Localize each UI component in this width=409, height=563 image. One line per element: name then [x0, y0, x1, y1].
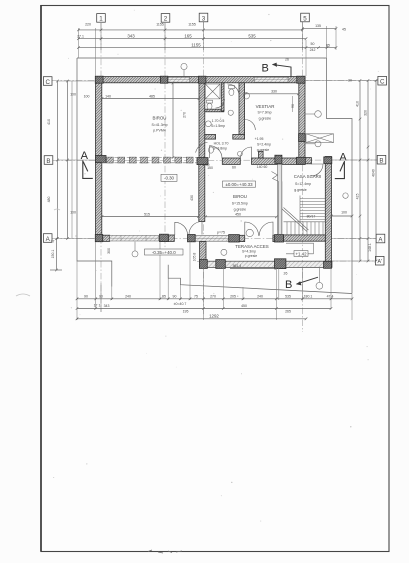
svg-text:±0.00=+40.33: ±0.00=+40.33	[225, 182, 253, 187]
svg-text:1.30: 1.30	[203, 163, 210, 167]
svg-text:BIROU: BIROU	[233, 194, 247, 199]
wall wc divider horizontal	[205, 109, 224, 112]
wall parapet A'	[203, 261, 332, 267]
tag circle above top wall	[181, 63, 187, 76]
bubble 2	[161, 14, 170, 23]
level box birou1	[161, 174, 177, 181]
svg-text:50: 50	[311, 42, 315, 46]
svg-text:80/17: 80/17	[307, 215, 316, 219]
svg-text:135: 135	[315, 24, 321, 28]
svg-text:2: 2	[164, 16, 168, 23]
column G5-B	[297, 157, 306, 164]
tag circle wc mid	[228, 110, 233, 115]
window row A birou2	[195, 236, 229, 242]
svg-text:330: 330	[271, 89, 277, 93]
grid axis A'	[197, 260, 375, 263]
svg-text:343: 343	[104, 304, 110, 308]
fixture wc2 sink	[205, 121, 211, 127]
wall row A seg4	[273, 235, 275, 241]
tag circle right wall	[343, 193, 348, 198]
tag circle wc	[243, 93, 249, 99]
wall row B right of axis5	[305, 158, 311, 164]
svg-text:S=7.9mp: S=7.9mp	[257, 111, 271, 115]
wall hol top horizontal left	[205, 135, 216, 140]
svg-text:343: 343	[127, 34, 135, 39]
bubble 5	[301, 13, 310, 22]
frame bottom smudges	[148, 550, 182, 553]
wall row A seg2	[168, 235, 174, 241]
svg-text:148.1: 148.1	[368, 243, 372, 252]
svg-text:150.1: 150.1	[51, 250, 55, 259]
svg-text:45: 45	[342, 27, 346, 31]
svg-text:77: 77	[51, 240, 55, 244]
top dim labels	[77, 23, 346, 62]
wall terasa left	[200, 242, 206, 262]
svg-text:g.gresie: g.gresie	[257, 148, 270, 152]
svg-text:47.4: 47.4	[327, 294, 334, 298]
bubble B right	[377, 155, 386, 164]
svg-text:105.8: 105.8	[193, 253, 197, 262]
left dim chain 2	[66, 80, 69, 240]
door wc2 arc	[245, 120, 256, 131]
svg-text:VESTIAR: VESTIAR	[256, 104, 275, 109]
grid axis 5	[302, 22, 304, 332]
svg-text:A': A'	[377, 259, 381, 265]
svg-text:561.4: 561.4	[233, 264, 242, 268]
svg-text:B: B	[262, 63, 269, 75]
svg-text:1292: 1292	[209, 313, 219, 318]
svg-text:BIROU: BIROU	[153, 116, 167, 121]
wall interior axis3 lower	[199, 164, 205, 221]
stair treads lower flight	[284, 222, 326, 235]
section mark B bottom	[285, 277, 318, 291]
column G3-C	[199, 76, 206, 83]
interior dim 330 vestiar	[244, 93, 300, 96]
svg-text:S=3.8mp: S=3.8mp	[213, 146, 227, 150]
right dim chain 3	[375, 79, 378, 262]
svg-text:90: 90	[291, 104, 295, 108]
svg-text:26: 26	[284, 272, 288, 276]
svg-text:415: 415	[355, 194, 359, 200]
left dim chain 1	[56, 80, 59, 240]
svg-text:515: 515	[144, 212, 150, 216]
svg-text:90: 90	[99, 294, 103, 298]
beam hatch dashes	[107, 157, 194, 163]
window top wall vestiar	[254, 77, 288, 82]
wall stub room divider	[259, 151, 264, 158]
bubble A left	[43, 234, 52, 243]
top dim 135	[301, 27, 337, 30]
stair treads upper flight	[300, 196, 325, 222]
bottom dim chain 3	[76, 318, 308, 321]
top dim chain 3	[77, 46, 307, 49]
svg-text:S=12.4mp: S=12.4mp	[295, 182, 311, 186]
svg-text:450: 450	[235, 213, 241, 217]
svg-text:165: 165	[184, 34, 192, 39]
interior dim 450 birou2	[204, 216, 278, 219]
svg-text:C: C	[45, 79, 50, 86]
wall casa scarii right	[325, 157, 331, 269]
door terasa left arc	[245, 222, 259, 236]
label room birou 2	[232, 194, 248, 217]
grid axis 1	[100, 23, 102, 312]
grid axis C	[52, 80, 378, 82]
fixture wc1 toilet	[229, 86, 235, 96]
svg-text:-0.35=+40.0: -0.35=+40.0	[152, 250, 176, 255]
column G2-C	[160, 76, 167, 83]
svg-text:90: 90	[84, 294, 88, 298]
grid axis 2	[164, 23, 166, 248]
door row A birou arc	[175, 222, 188, 235]
svg-text:100: 100	[84, 94, 90, 98]
wall wc stub vertical	[221, 83, 224, 111]
stair break line	[272, 172, 279, 182]
eaves outline top-left	[77, 58, 327, 287]
beam dashed row B in birou	[102, 157, 199, 162]
label room dus	[255, 137, 272, 152]
svg-text:270: 270	[210, 294, 216, 298]
grid axis B	[53, 159, 377, 162]
level box birou2	[223, 181, 256, 187]
column parapet 2	[275, 259, 286, 269]
svg-text:480: 480	[47, 197, 51, 203]
bottom dim labels	[84, 294, 333, 318]
bubble 3	[199, 13, 208, 22]
svg-text:27.1: 27.1	[77, 35, 84, 39]
interior dim 270 vertical	[172, 82, 175, 159]
bubble 1	[97, 14, 106, 23]
svg-text:26: 26	[285, 57, 289, 61]
svg-text:1155: 1155	[188, 23, 196, 27]
stair railing double line	[278, 181, 282, 235]
svg-text:C: C	[380, 79, 385, 86]
svg-text:3: 3	[202, 15, 206, 22]
svg-text:90: 90	[173, 294, 177, 298]
right extension lines	[306, 81, 377, 262]
svg-text:B: B	[46, 158, 50, 165]
svg-text:5: 5	[303, 15, 307, 22]
svg-text:TERASA ACCES: TERASA ACCES	[235, 244, 268, 249]
dim 561.4 line	[230, 267, 277, 270]
svg-text:p.PVM4: p.PVM4	[153, 129, 166, 133]
column G1-A	[95, 235, 102, 242]
wall casa scarii left thin	[278, 164, 282, 235]
interior dim 485	[101, 97, 201, 100]
svg-text:g.gresie: g.gresie	[234, 207, 247, 211]
column stair left top	[275, 155, 282, 163]
column door A	[188, 235, 196, 242]
door wc1 arc	[216, 84, 240, 108]
scan specks	[53, 10, 379, 522]
bubble B left	[44, 156, 53, 165]
door hol row B arc	[210, 146, 223, 159]
column G1-C	[95, 76, 103, 83]
svg-text:100: 100	[70, 211, 76, 215]
wall row A birou segment	[103, 235, 110, 241]
svg-text:g.gresie: g.gresie	[294, 188, 307, 192]
bubble C left	[43, 77, 52, 86]
svg-text:100: 100	[341, 211, 347, 215]
svg-text:240: 240	[257, 294, 263, 298]
label room wc	[211, 119, 225, 128]
column terasa A	[229, 235, 240, 242]
tag circle below window A	[132, 242, 138, 257]
svg-text:220: 220	[85, 23, 91, 27]
margin smudge left	[16, 209, 60, 296]
column casa scarii A	[275, 235, 284, 242]
label room terasa	[235, 244, 268, 258]
bottom dim chain 1	[76, 298, 354, 301]
fixture wc2 toilet	[207, 100, 213, 109]
svg-text:85: 85	[162, 294, 166, 298]
fixture hol sink	[209, 147, 214, 153]
column right wall mid	[299, 134, 306, 142]
bubble A' right	[375, 256, 384, 265]
vestiar small vline	[292, 96, 294, 112]
tag circle right of vestiar 2	[305, 141, 321, 147]
wall row A seg3b	[239, 235, 244, 241]
svg-text:242: 242	[310, 48, 316, 52]
svg-text:g.gresie: g.gresie	[259, 117, 272, 121]
grid axis A	[52, 238, 376, 240]
svg-text:+1.95: +1.95	[255, 137, 264, 141]
svg-text:1155: 1155	[191, 42, 201, 47]
crossed box flue	[306, 134, 334, 143]
svg-text:1155: 1155	[156, 23, 164, 27]
svg-text:17 1: 17 1	[94, 304, 101, 308]
door terasa right arc	[259, 222, 273, 236]
svg-text:265: 265	[285, 309, 291, 313]
grid axis 3	[203, 22, 205, 315]
svg-text:485: 485	[149, 94, 155, 98]
frame left edge overdraw	[40, 5, 42, 552]
eaves outline right	[327, 58, 353, 294]
column G2-A	[160, 234, 169, 241]
wall row A across stair	[284, 235, 326, 241]
top dim chain 1	[77, 29, 304, 32]
window row A	[110, 235, 159, 241]
svg-text:85: 85	[326, 44, 330, 48]
svg-text:30: 30	[348, 79, 352, 83]
bottom extension lines	[72, 81, 352, 320]
right dim chain 2	[367, 79, 370, 262]
svg-text:B: B	[379, 158, 383, 165]
right dim chain 1	[359, 79, 362, 262]
left dim chain lower	[50, 237, 62, 271]
svg-text:535: 535	[285, 294, 291, 298]
tag circle row B door	[238, 151, 243, 156]
column stair right top	[324, 157, 332, 164]
stair slope line	[282, 208, 309, 232]
svg-text:p.gresie: p.gresie	[245, 254, 258, 258]
svg-text:p=75: p=75	[217, 231, 225, 235]
svg-text:195: 195	[183, 309, 189, 313]
svg-text:±0=40.7: ±0=40.7	[174, 302, 187, 306]
left extension lines	[58, 81, 96, 239]
wall left exterior	[96, 77, 102, 242]
right small dim line	[330, 215, 353, 218]
top dim chain 2	[77, 37, 307, 40]
svg-text:410: 410	[47, 119, 51, 125]
svg-text:300: 300	[107, 248, 111, 254]
tag circle bottom right	[316, 268, 323, 289]
wall top exterior	[96, 77, 306, 83]
svg-text:A: A	[339, 152, 347, 164]
column parapet right	[324, 261, 332, 268]
svg-text:410: 410	[355, 101, 359, 107]
svg-text:450: 450	[241, 304, 247, 308]
wall hol top horizontal right	[233, 135, 245, 140]
svg-text:4049: 4049	[371, 169, 375, 177]
svg-text:535: 535	[248, 34, 256, 39]
door axis3 wall arc	[189, 222, 202, 235]
column terasa left bottom	[199, 260, 207, 269]
svg-text:270: 270	[183, 112, 187, 118]
section mark A right	[335, 152, 348, 179]
level box stair landing	[294, 251, 308, 257]
svg-text:CASA SCARII: CASA SCARII	[294, 174, 322, 179]
interior dim labels	[84, 89, 316, 275]
tag circle terasa	[221, 249, 227, 255]
door vestiar-stair arc	[311, 164, 323, 176]
svg-text:B: B	[285, 279, 292, 291]
svg-text:205: 205	[230, 294, 236, 298]
svg-text:S=2.4mp: S=2.4mp	[257, 143, 271, 147]
wall wc divider vertical	[239, 83, 245, 135]
wall row B seg2	[252, 158, 306, 164]
label room casa scarii	[294, 174, 322, 192]
label room vestiar	[256, 104, 275, 121]
svg-text:S=15.5mp: S=15.5mp	[232, 201, 248, 205]
section mark B top	[262, 63, 292, 78]
interior dim 515	[101, 215, 200, 218]
svg-text:S=41.3mp: S=41.3mp	[151, 123, 167, 127]
door room B arc	[241, 147, 252, 158]
svg-text:240: 240	[125, 294, 131, 298]
column G3-B	[197, 158, 208, 165]
bottom dim chain 2	[76, 307, 333, 310]
svg-text:-0.30: -0.30	[164, 176, 175, 181]
column parapet 1	[216, 260, 226, 269]
svg-text:HOL 3.70: HOL 3.70	[214, 142, 229, 146]
door birou-hol arc	[196, 143, 208, 153]
svg-text:+1.42: +1.42	[295, 251, 307, 256]
section mark A left	[81, 150, 93, 178]
wall right upper exterior	[299, 77, 305, 163]
top extension lines	[79, 22, 337, 76]
bubble A right	[376, 234, 385, 243]
level box terasa	[145, 249, 184, 255]
column left wall row B	[95, 156, 106, 163]
bubble C right	[378, 76, 387, 85]
svg-text:1: 1	[99, 16, 103, 23]
tag circle right of vestiar 1	[305, 111, 321, 118]
window top wall bay 2-3	[168, 77, 190, 82]
wall interior axis3 upper	[199, 83, 205, 158]
svg-text:S=1.5mp: S=1.5mp	[211, 124, 225, 128]
understair landing lines	[286, 243, 314, 254]
right dim labels	[341, 79, 375, 252]
svg-text:1.70 0.5: 1.70 0.5	[212, 119, 225, 123]
svg-text:75: 75	[194, 294, 198, 298]
ground step line bottom	[168, 265, 352, 294]
top dim small right chain	[306, 46, 337, 49]
column G5-C	[297, 76, 305, 83]
svg-text:180.1: 180.1	[304, 294, 313, 298]
svg-text:320: 320	[363, 110, 367, 116]
label room birou 1	[151, 116, 167, 133]
left dim labels	[47, 93, 76, 259]
svg-text:140: 140	[105, 94, 111, 98]
svg-text:60: 60	[232, 166, 236, 170]
label room hol	[213, 142, 229, 151]
svg-text:140 60: 140 60	[257, 165, 268, 169]
shower cross	[205, 84, 220, 99]
wall row B seg1	[222, 158, 240, 164]
terasa door circle symbol	[246, 229, 253, 236]
svg-text:430: 430	[190, 195, 194, 201]
svg-text:100: 100	[70, 93, 76, 97]
